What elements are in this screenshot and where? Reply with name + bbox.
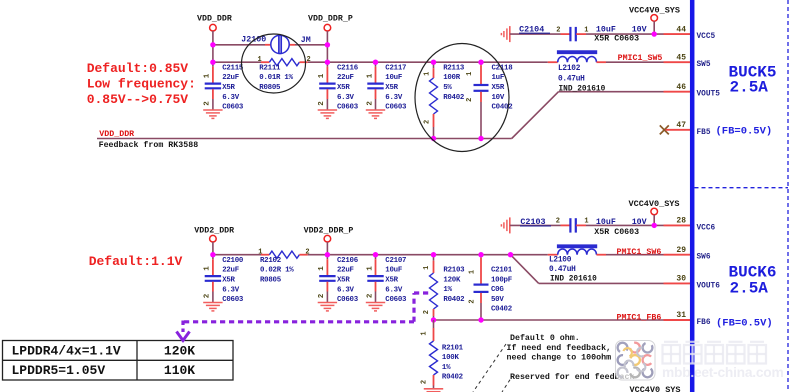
svg-text:6.3V: 6.3V <box>385 94 403 102</box>
svg-text:6.3V: 6.3V <box>337 94 355 102</box>
svg-text:C0G: C0G <box>491 286 504 294</box>
svg-text:2: 2 <box>466 98 474 102</box>
svg-text:2: 2 <box>556 26 560 34</box>
svg-text:6.3V: 6.3V <box>222 286 240 294</box>
svg-text:46: 46 <box>676 83 686 92</box>
svg-text:C2100: C2100 <box>222 257 244 265</box>
svg-text:6.3V: 6.3V <box>385 286 403 294</box>
svg-text:22uF: 22uF <box>222 74 239 82</box>
svg-text:C0603: C0603 <box>385 296 407 304</box>
svg-text:LPDDR4/4x=1.1V: LPDDR4/4x=1.1V <box>12 343 121 358</box>
svg-text:R0402: R0402 <box>443 296 464 304</box>
svg-text:2: 2 <box>204 293 212 298</box>
svg-text:PMIC1_SW5: PMIC1_SW5 <box>618 54 663 63</box>
svg-text:1: 1 <box>258 56 262 64</box>
svg-text:FB6: FB6 <box>697 319 711 327</box>
svg-text:50V: 50V <box>491 296 504 304</box>
svg-text:R2102: R2102 <box>260 257 281 265</box>
svg-text:1: 1 <box>469 270 477 274</box>
svg-text:0.47uH: 0.47uH <box>549 266 576 274</box>
svg-text:LPDDR5=1.05V: LPDDR5=1.05V <box>12 363 106 378</box>
svg-text:X5R: X5R <box>222 277 235 285</box>
svg-text:2: 2 <box>366 101 374 106</box>
svg-text:2: 2 <box>469 299 477 303</box>
svg-text:JM: JM <box>301 36 311 45</box>
svg-text:1: 1 <box>584 218 588 226</box>
svg-text:PMIC1_FB6: PMIC1_FB6 <box>617 313 662 322</box>
svg-text:R2111: R2111 <box>259 64 281 72</box>
svg-text:100K: 100K <box>442 354 460 362</box>
svg-text:mbb.eet-china.com: mbb.eet-china.com <box>662 365 783 380</box>
svg-text:VCC4V0_SYS: VCC4V0_SYS <box>630 385 681 392</box>
svg-text:If need end feedback,: If need end feedback, <box>507 343 612 353</box>
svg-text:C0402: C0402 <box>491 306 512 314</box>
svg-text:2: 2 <box>204 101 212 106</box>
svg-text:10uF: 10uF <box>385 267 402 275</box>
svg-text:2: 2 <box>366 293 374 298</box>
svg-text:(FB=0.5V): (FB=0.5V) <box>716 317 773 329</box>
svg-text:1: 1 <box>584 26 588 34</box>
svg-text:Default:1.1V: Default:1.1V <box>89 254 183 269</box>
svg-text:2: 2 <box>420 380 428 384</box>
svg-text:L2102: L2102 <box>558 65 581 73</box>
svg-text:10uF: 10uF <box>385 74 402 82</box>
svg-text:Low frequency:: Low frequency: <box>87 77 196 92</box>
svg-text:10V: 10V <box>632 25 647 34</box>
svg-text:C0603: C0603 <box>222 104 244 112</box>
svg-text:2: 2 <box>307 56 311 64</box>
svg-text:1: 1 <box>204 266 212 271</box>
svg-text:22uF: 22uF <box>222 267 239 275</box>
svg-text:X5R: X5R <box>492 84 505 92</box>
svg-text:120K: 120K <box>164 343 195 358</box>
svg-text:10V: 10V <box>632 218 647 227</box>
svg-text:1: 1 <box>366 266 374 271</box>
svg-text:1: 1 <box>318 73 326 78</box>
svg-text:1: 1 <box>258 248 262 256</box>
svg-text:X5R: X5R <box>337 277 350 285</box>
svg-text:10uF: 10uF <box>596 218 616 227</box>
svg-text:L2100: L2100 <box>549 257 572 265</box>
svg-text:110K: 110K <box>164 363 195 378</box>
svg-text:need change to 100ohm: need change to 100ohm <box>507 352 612 362</box>
svg-text:2: 2 <box>556 218 560 226</box>
svg-text:45: 45 <box>676 53 686 62</box>
svg-text:SW6: SW6 <box>697 254 711 262</box>
svg-text:X5R: X5R <box>222 84 235 92</box>
svg-text:C2107: C2107 <box>385 257 406 265</box>
svg-text:VDD_DDR: VDD_DDR <box>99 130 134 139</box>
svg-text:VDD2_DDR: VDD2_DDR <box>194 227 234 236</box>
svg-text:2: 2 <box>305 248 309 256</box>
svg-text:X5R: X5R <box>337 84 350 92</box>
svg-text:2.5A: 2.5A <box>730 280 769 298</box>
svg-text:VOUT6: VOUT6 <box>697 282 721 290</box>
svg-text:28: 28 <box>676 217 686 226</box>
svg-text:IND 201610: IND 201610 <box>550 275 597 283</box>
svg-text:C2117: C2117 <box>385 64 406 72</box>
svg-text:C0603: C0603 <box>337 296 359 304</box>
svg-text:0.47uH: 0.47uH <box>558 75 585 83</box>
svg-text:1: 1 <box>420 331 428 335</box>
svg-text:0.01R 1%: 0.01R 1% <box>259 74 293 82</box>
svg-text:1: 1 <box>466 72 474 76</box>
svg-text:6.3V: 6.3V <box>222 94 240 102</box>
svg-text:X5R C0603: X5R C0603 <box>594 228 639 237</box>
svg-text:1: 1 <box>423 72 431 76</box>
svg-text:47: 47 <box>676 121 686 130</box>
svg-text:C2101: C2101 <box>491 267 513 275</box>
svg-text:(FB=0.5V): (FB=0.5V) <box>716 125 773 137</box>
svg-text:2: 2 <box>423 310 431 314</box>
svg-text:C2106: C2106 <box>337 257 359 265</box>
svg-text:2: 2 <box>318 101 326 106</box>
svg-text:5%: 5% <box>443 84 452 92</box>
svg-text:X5R: X5R <box>385 277 398 285</box>
svg-text:Default 0 ohm.: Default 0 ohm. <box>510 333 580 343</box>
svg-text:100R: 100R <box>443 74 461 82</box>
svg-text:VCC6: VCC6 <box>697 224 716 232</box>
svg-text:Default:0.85V: Default:0.85V <box>87 61 189 76</box>
svg-text:FB5: FB5 <box>697 129 711 137</box>
svg-text:C0603: C0603 <box>385 104 407 112</box>
svg-text:10uF: 10uF <box>596 25 616 34</box>
svg-text:6.3V: 6.3V <box>337 286 355 294</box>
svg-text:22uF: 22uF <box>337 74 354 82</box>
svg-text:44: 44 <box>676 25 686 34</box>
svg-text:PMIC1_SW6: PMIC1_SW6 <box>617 248 662 257</box>
svg-text:1%: 1% <box>443 286 452 294</box>
svg-text:2: 2 <box>423 120 431 124</box>
svg-text:30: 30 <box>676 275 686 284</box>
svg-text:2.5A: 2.5A <box>730 78 769 96</box>
svg-text:VDD2_DDR_P: VDD2_DDR_P <box>304 227 354 236</box>
svg-text:VDD_DDR_P: VDD_DDR_P <box>308 14 353 23</box>
svg-text:10V: 10V <box>492 94 505 102</box>
svg-text:1: 1 <box>204 73 212 78</box>
svg-text:22uF: 22uF <box>337 267 354 275</box>
svg-text:C0402: C0402 <box>492 104 513 112</box>
svg-text:VCC5: VCC5 <box>697 33 716 41</box>
svg-text:1: 1 <box>366 73 374 78</box>
svg-text:C2115: C2115 <box>222 64 244 72</box>
svg-text:0.85V-->0.75V: 0.85V-->0.75V <box>87 92 189 107</box>
svg-text:R2101: R2101 <box>442 344 464 352</box>
svg-text:R0402: R0402 <box>443 94 464 102</box>
svg-text:SW5: SW5 <box>697 61 711 69</box>
svg-text:X5R: X5R <box>385 84 398 92</box>
svg-text:1%: 1% <box>442 364 451 372</box>
svg-text:R0402: R0402 <box>442 374 463 382</box>
svg-text:IND_201610: IND_201610 <box>559 85 606 93</box>
svg-text:1: 1 <box>318 266 326 271</box>
svg-text:Feedback from RK3588: Feedback from RK3588 <box>99 140 199 150</box>
svg-text:VOUT5: VOUT5 <box>697 91 721 99</box>
svg-text:1uF: 1uF <box>492 74 505 82</box>
svg-text:C2116: C2116 <box>337 64 359 72</box>
svg-text:C0603: C0603 <box>337 104 359 112</box>
svg-text:1: 1 <box>423 266 431 270</box>
svg-text:100pF: 100pF <box>491 276 512 284</box>
svg-text:R2113: R2113 <box>443 64 465 72</box>
svg-text:R0805: R0805 <box>260 277 282 285</box>
svg-text:VDD_DDR: VDD_DDR <box>197 14 232 23</box>
svg-text:31: 31 <box>676 311 686 320</box>
svg-text:120K: 120K <box>443 276 461 284</box>
svg-text:C0603: C0603 <box>222 296 244 304</box>
svg-text:X5R C0603: X5R C0603 <box>594 35 639 44</box>
svg-text:29: 29 <box>676 246 686 255</box>
svg-text:0.02R 1%: 0.02R 1% <box>260 267 294 275</box>
svg-text:R2103: R2103 <box>443 267 465 275</box>
svg-text:2: 2 <box>318 293 326 298</box>
